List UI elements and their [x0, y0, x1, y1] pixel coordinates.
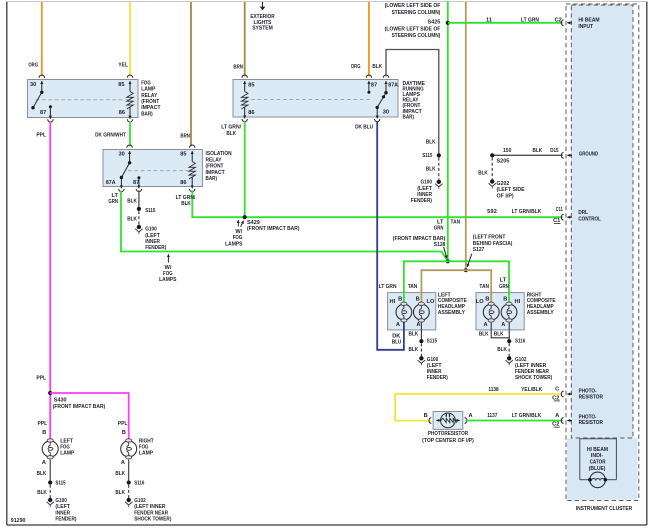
svg-text:BLK: BLK	[533, 148, 543, 154]
svg-text:LT GRN: LT GRN	[521, 17, 539, 23]
svg-text:LAMPS: LAMPS	[159, 277, 177, 283]
relay coil DRL relay	[242, 92, 248, 109]
wire LT GRN from isolation relay 87A down and right	[108, 191, 447, 262]
label LT GRN (right headlamp)	[499, 278, 509, 290]
svg-text:592: 592	[487, 209, 497, 215]
svg-text:GRN: GRN	[434, 226, 444, 232]
svg-text:D15: D15	[550, 148, 558, 154]
svg-text:G100: G100	[145, 227, 157, 233]
bulb LO left headlamp	[414, 296, 435, 328]
svg-text:87: 87	[371, 82, 377, 88]
label LT GRN / TAN (above S128)	[434, 219, 460, 231]
svg-text:(FRONT: (FRONT	[206, 164, 224, 170]
svg-text:87A: 87A	[106, 180, 116, 186]
left fog lamp	[38, 421, 75, 466]
svg-text:LT GRN/BLK: LT GRN/BLK	[512, 209, 542, 215]
svg-text:(TOP CENTER OF I/P): (TOP CENTER OF I/P)	[422, 438, 474, 444]
node S116 (right headlamp)	[507, 339, 525, 345]
isolation relay (front impact bar)	[103, 150, 232, 187]
svg-text:BLK: BLK	[426, 139, 436, 145]
svg-text:87: 87	[133, 180, 139, 186]
svg-text:B: B	[503, 296, 507, 302]
svg-text:RELAY: RELAY	[206, 157, 222, 163]
svg-text:(FRONT IMPACT BAR): (FRONT IMPACT BAR)	[53, 404, 106, 410]
svg-text:86: 86	[119, 110, 125, 116]
node S115 (right)	[422, 153, 441, 159]
svg-text:CATOR: CATOR	[590, 460, 606, 466]
svg-text:BAR): BAR)	[206, 176, 218, 182]
svg-text:86: 86	[248, 110, 254, 116]
svg-text:GRN: GRN	[108, 199, 118, 205]
wire LT GRN/BLK isolation relay 86 to DRL CONTROL (592)	[176, 191, 563, 218]
svg-text:S127: S127	[473, 247, 485, 253]
svg-text:INSTRUMENT CLUSTER: INSTRUMENT CLUSTER	[576, 506, 632, 512]
pin C11/C1 connector at cluster DRL CONTROL	[553, 210, 601, 224]
ground G100 (left inner fender, fog lamp)	[47, 498, 77, 523]
node S115 (isolation relay)	[137, 207, 156, 214]
svg-text:S115: S115	[145, 208, 155, 214]
svg-text:87: 87	[40, 110, 46, 116]
bulb HI left headlamp	[390, 296, 412, 328]
wire PPL S430 to right fog lamp	[50, 393, 129, 439]
wire BLK S205 to G202 (dashed)	[478, 158, 492, 180]
svg-text:S116: S116	[515, 339, 525, 345]
pin 87 DRL relay	[366, 75, 377, 94]
svg-text:B: B	[122, 430, 126, 436]
svg-text:(LEFT: (LEFT	[145, 233, 160, 239]
svg-text:FENDER): FENDER)	[55, 517, 76, 523]
drawing number 91290	[11, 518, 26, 524]
wire ORG feed to fog lamp relay pin 30	[28, 2, 41, 76]
bulb hi beam indicator	[588, 472, 607, 488]
svg-text:CONTROL: CONTROL	[578, 217, 601, 223]
svg-text:A: A	[396, 322, 400, 328]
wire BLK S115 to G100 (dashed, fog lamp)	[37, 485, 50, 498]
ground G102 (left inner fender near shock tower)	[506, 356, 553, 381]
svg-text:87A: 87A	[388, 82, 398, 88]
svg-text:A: A	[42, 460, 46, 466]
wire LT GRN S128 to both headlamp HI bulbs	[404, 261, 509, 303]
pin 86 fog lamp relay	[119, 107, 133, 122]
svg-text:DK: DK	[392, 333, 401, 339]
svg-text:A: A	[555, 413, 559, 419]
instrument cluster (dashed outline, blue band)	[566, 4, 639, 512]
switch contact 30-87A isolation relay	[120, 161, 132, 179]
pin A/C2 connector at cluster PHOTO-RESISTOR (lower)	[552, 414, 603, 427]
relay coil fog lamp relay	[127, 92, 133, 109]
right fog lamp	[118, 421, 154, 466]
pin 30 isolation relay	[119, 145, 133, 162]
svg-text:(LOWER LEFT SIDE OF: (LOWER LEFT SIDE OF	[385, 26, 441, 32]
wire BRN feed to DRL relay pin 85	[233, 2, 244, 76]
annotation W/ FOG LAMPS (left)	[159, 254, 177, 283]
svg-text:W/: W/	[165, 265, 172, 271]
ground G100 (left inner fender, isolation relay)	[135, 225, 166, 251]
svg-text:91290: 91290	[11, 518, 26, 524]
wire DK GRN/WHT fog relay 86 to isolation relay 30	[95, 121, 130, 146]
wire BLK left headlamp LO to S115	[409, 323, 422, 340]
svg-text:FOG: FOG	[60, 445, 70, 451]
svg-text:HI: HI	[515, 299, 521, 305]
svg-text:BLK: BLK	[494, 332, 504, 338]
node S127 (left front behind fascia)	[464, 235, 513, 273]
svg-text:TAN: TAN	[408, 284, 418, 290]
svg-text:FENDER): FENDER)	[145, 245, 166, 251]
svg-text:INNER: INNER	[417, 192, 432, 198]
svg-text:BLK: BLK	[426, 167, 436, 173]
svg-text:30: 30	[119, 152, 125, 158]
svg-text:TAN: TAN	[451, 219, 461, 225]
svg-text:S205: S205	[497, 158, 510, 164]
svg-text:BLK: BLK	[409, 347, 419, 353]
node EXTERIOR LIGHTS SYSTEM (off-page arrow)	[250, 2, 274, 32]
svg-text:BRN: BRN	[233, 65, 243, 71]
svg-text:PHOTORESISTOR: PHOTORESISTOR	[428, 431, 468, 437]
svg-text:BLK: BLK	[127, 198, 137, 204]
svg-text:BLK: BLK	[181, 201, 191, 207]
svg-text:ASSEMBLY: ASSEMBLY	[527, 310, 554, 316]
svg-text:LAMP: LAMP	[141, 87, 155, 93]
svg-text:(LEFT: (LEFT	[417, 186, 432, 192]
svg-text:B: B	[42, 430, 46, 436]
svg-text:LO: LO	[427, 299, 435, 305]
node S429 (front impact bar)	[241, 215, 300, 232]
wire BLK right fog lamp to S116	[115, 460, 128, 481]
svg-text:BLK: BLK	[497, 347, 507, 353]
svg-text:BLK: BLK	[37, 490, 47, 496]
svg-text:85: 85	[180, 152, 186, 158]
svg-text:W/: W/	[235, 229, 242, 235]
daytime running lamps relay (front impact bar)	[233, 80, 425, 121]
svg-text:LT GRN/: LT GRN/	[221, 125, 241, 131]
svg-text:1137: 1137	[487, 413, 497, 419]
wire PPL from fog relay 87 to S430 and left fog lamp	[36, 121, 50, 439]
pin 86 DRL relay	[242, 107, 254, 122]
node S116 (right fog lamp)	[127, 480, 145, 486]
pin D15 connector at cluster GROUND	[561, 151, 598, 158]
svg-text:S116: S116	[134, 481, 144, 487]
wire TAN S127 to both headlamp LO bulbs	[421, 270, 491, 303]
svg-text:DK GRN/WHT: DK GRN/WHT	[95, 133, 126, 139]
ground G202 (left side of I/P)	[489, 179, 525, 199]
wire BLK left fog lamp to S115	[37, 460, 51, 481]
wire BLK right headlamp LO and HI to S116	[479, 323, 509, 340]
wire 150 BLK D15 to cluster GROUND	[492, 148, 563, 155]
svg-text:C: C	[555, 387, 559, 393]
svg-text:BAR): BAR)	[403, 114, 415, 120]
svg-text:PPL: PPL	[36, 376, 46, 382]
svg-text:BLK: BLK	[372, 64, 382, 70]
svg-text:A: A	[484, 322, 488, 328]
ground G100 (left inner fender) right	[411, 180, 443, 204]
wire BRN feed to isolation relay pin 85	[180, 2, 191, 146]
pin C2 connector at instrument cluster HI BEAM INPUT	[561, 17, 600, 30]
svg-text:85: 85	[118, 82, 124, 88]
svg-text:HI BEAM: HI BEAM	[578, 17, 599, 23]
svg-text:S115: S115	[422, 153, 432, 159]
svg-text:LT: LT	[437, 219, 444, 225]
svg-text:IMPACT: IMPACT	[141, 105, 161, 111]
svg-text:S430: S430	[54, 398, 67, 404]
svg-text:G102: G102	[134, 498, 146, 504]
svg-text:BLK: BLK	[226, 131, 236, 137]
svg-text:FOG: FOG	[139, 445, 149, 451]
wire BLK S115 to G100 (dashed, headlamp)	[409, 343, 422, 356]
svg-text:INNER: INNER	[55, 510, 70, 516]
svg-text:LAMP: LAMP	[60, 451, 74, 457]
svg-text:(LOWER LEFT SIDE OF: (LOWER LEFT SIDE OF	[385, 3, 441, 9]
label LT GRN (left headlamp)	[379, 284, 397, 290]
bulb HI right headlamp	[501, 296, 520, 328]
wire ORG feed to DRL relay pin 87	[351, 2, 369, 76]
svg-text:RELAY: RELAY	[141, 93, 157, 99]
svg-text:B: B	[485, 296, 489, 302]
wire TAN feed to splice S127	[465, 2, 467, 268]
photoresistor (top center of I/P)	[422, 412, 474, 445]
svg-text:YEL/BLK: YEL/BLK	[521, 387, 543, 393]
svg-text:SHOCK TOWER): SHOCK TOWER)	[515, 375, 552, 381]
svg-text:FENDER NEAR: FENDER NEAR	[134, 510, 168, 516]
wire LT GRN from steering column through S425 down to S128	[447, 1, 449, 259]
ground G102 (left inner fender near shock tower, fog lamp)	[125, 498, 171, 523]
svg-text:LAMP: LAMP	[139, 451, 153, 457]
svg-text:S115: S115	[55, 481, 65, 487]
svg-text:A: A	[501, 322, 505, 328]
svg-text:G202: G202	[497, 181, 510, 187]
wire BLK S116 to G102 (dashed, headlamp)	[497, 343, 509, 356]
wire 1138 YEL/BLK to cluster PHOTO-RESISTOR	[395, 387, 563, 421]
switch contact 87A-30 DRL relay	[376, 93, 387, 109]
svg-text:B: B	[424, 413, 428, 419]
svg-text:BLK: BLK	[479, 332, 489, 338]
svg-text:FOG: FOG	[163, 271, 173, 277]
pin 87 isolation relay	[133, 176, 142, 191]
svg-text:SYSTEM: SYSTEM	[252, 26, 273, 32]
wire 1137 LT GRN/BLK to cluster PHOTO-RESISTOR	[466, 413, 563, 421]
svg-text:BLK: BLK	[409, 332, 419, 338]
ground G100 (left inner fender, headlamp)	[418, 356, 448, 381]
left composite headlamp assembly	[388, 292, 467, 330]
svg-text:BLU: BLU	[392, 340, 402, 346]
pin 86 isolation relay	[180, 177, 195, 192]
svg-text:DRL: DRL	[578, 210, 588, 216]
svg-text:S425: S425	[428, 20, 441, 26]
node S425 (lower left side of steering column)	[385, 3, 450, 39]
svg-text:LT: LT	[500, 278, 507, 284]
svg-text:BRN: BRN	[180, 134, 190, 140]
svg-text:B: B	[416, 296, 420, 302]
wire BLK S115 to G100 (dashed)	[426, 158, 439, 180]
svg-text:S115: S115	[427, 339, 437, 345]
svg-text:LAMPS: LAMPS	[225, 241, 243, 247]
right composite headlamp assembly	[476, 292, 556, 330]
svg-text:ORG: ORG	[28, 63, 38, 69]
svg-text:GRN: GRN	[499, 284, 509, 290]
node S205	[490, 153, 509, 164]
pin 30 fog lamp relay	[30, 75, 45, 92]
svg-text:LEFT: LEFT	[60, 439, 73, 445]
svg-text:SHOCK TOWER): SHOCK TOWER)	[134, 517, 171, 523]
svg-text:YEL: YEL	[118, 63, 128, 69]
svg-text:INDI-: INDI-	[591, 453, 603, 459]
svg-text:150: 150	[503, 148, 511, 154]
svg-text:11: 11	[486, 17, 492, 23]
bulb LO right headlamp	[476, 296, 499, 328]
switch contact 30-87 fog lamp relay	[31, 91, 43, 110]
svg-text:(LEFT FRONT: (LEFT FRONT	[473, 235, 506, 241]
svg-text:ISOLATION: ISOLATION	[206, 151, 232, 157]
svg-text:(LEFT INNER: (LEFT INNER	[134, 504, 165, 510]
svg-text:A: A	[121, 460, 125, 466]
hi beam indicator (blue) in instrument cluster	[580, 439, 617, 480]
pin 87 fog lamp relay	[40, 105, 53, 122]
pin 85 isolation relay	[180, 145, 195, 162]
svg-text:(BLUE): (BLUE)	[589, 466, 606, 472]
svg-text:RIGHT: RIGHT	[139, 439, 154, 445]
svg-text:BLK: BLK	[115, 471, 125, 477]
wire BLK from DRL relay 87A to S115	[372, 50, 438, 154]
svg-text:LO: LO	[476, 299, 484, 305]
svg-text:ORG: ORG	[351, 64, 361, 70]
svg-text:FOG: FOG	[141, 80, 151, 86]
svg-text:30: 30	[383, 110, 389, 116]
svg-text:INNER: INNER	[145, 239, 160, 245]
svg-text:BLK: BLK	[37, 471, 47, 477]
pin 87A isolation relay	[106, 178, 124, 192]
svg-text:IMPACT: IMPACT	[206, 170, 226, 176]
svg-text:BEHIND FASCIA): BEHIND FASCIA)	[473, 241, 513, 247]
svg-text:BLK: BLK	[115, 490, 125, 496]
node S128 (front impact bar)	[393, 236, 450, 263]
pin 85 fog lamp relay	[118, 75, 132, 91]
node S115 (left fog lamp)	[48, 480, 65, 486]
svg-text:B: B	[398, 296, 402, 302]
svg-text:RESISTOR: RESISTOR	[579, 420, 603, 426]
svg-text:(FRONT: (FRONT	[141, 99, 159, 105]
svg-text:G100: G100	[55, 498, 67, 504]
svg-text:86: 86	[180, 180, 186, 186]
svg-text:C2: C2	[554, 17, 561, 23]
svg-text:TAN: TAN	[479, 284, 489, 290]
wire 11 LT GRN C2 to HI BEAM INPUT	[448, 17, 563, 23]
node S430 (front impact bar)	[36, 376, 105, 411]
svg-text:BLK: BLK	[127, 217, 137, 223]
wire LT GRN/BLK DRL relay 86 down to S429	[221, 121, 244, 216]
svg-text:STEERING COLUMN): STEERING COLUMN)	[392, 10, 441, 16]
pin 85 DRL relay	[242, 75, 254, 92]
svg-text:C11: C11	[556, 207, 563, 213]
label TAN (left headlamp)	[408, 284, 418, 290]
node S115 (left headlamp)	[419, 339, 437, 345]
svg-text:BAR): BAR)	[141, 111, 153, 117]
svg-text:FOG: FOG	[233, 235, 243, 241]
svg-text:PPL: PPL	[36, 133, 46, 139]
wire DK BLU DRL relay 30 to left headlamp HI	[355, 121, 404, 350]
wire BLK S116 to G102 (dashed, fog lamp)	[115, 485, 128, 498]
svg-text:85: 85	[248, 83, 254, 89]
svg-text:FENDER): FENDER)	[411, 198, 432, 204]
svg-text:LT GRN/BLK: LT GRN/BLK	[512, 413, 542, 419]
svg-text:A: A	[469, 413, 473, 419]
annotation W/ FOG LAMPS (at S429)	[225, 220, 243, 247]
fog lamp relay (front impact bar)	[28, 80, 162, 118]
svg-text:ASSEMBLY: ASSEMBLY	[438, 310, 465, 316]
wire BLK from isolation relay 87 to S115	[127, 191, 139, 207]
svg-text:1138: 1138	[488, 387, 498, 393]
label TAN (right headlamp)	[479, 284, 489, 290]
svg-text:GROUND: GROUND	[579, 151, 598, 157]
pin C/C2 connector at cluster PHOTO-RESISTOR (upper)	[552, 389, 603, 402]
svg-text:FENDER): FENDER)	[427, 375, 448, 381]
svg-text:(LEFT: (LEFT	[55, 504, 70, 510]
svg-text:LT: LT	[112, 193, 119, 199]
svg-text:STEERING COLUMN): STEERING COLUMN)	[392, 33, 441, 39]
svg-text:RESISTOR: RESISTOR	[579, 394, 603, 400]
svg-text:(FRONT IMPACT BAR): (FRONT IMPACT BAR)	[247, 226, 300, 232]
wire BLK S115 to G100 (dashed, isolation relay)	[127, 211, 139, 225]
svg-text:(LEFT SIDE: (LEFT SIDE	[497, 187, 525, 193]
svg-text:INPUT: INPUT	[578, 24, 593, 30]
svg-text:LT GRN: LT GRN	[379, 284, 397, 290]
svg-text:A: A	[416, 322, 420, 328]
svg-text:30: 30	[30, 82, 36, 88]
pin 87A DRL relay	[383, 75, 398, 94]
svg-text:BLK: BLK	[478, 170, 488, 176]
svg-text:G100: G100	[421, 180, 433, 186]
svg-text:OF I/P): OF I/P)	[497, 193, 514, 199]
svg-text:PPL: PPL	[118, 421, 128, 427]
wire YEL feed to fog lamp relay pin 85	[118, 2, 130, 76]
svg-text:DK BLU: DK BLU	[355, 125, 373, 131]
svg-text:PPL: PPL	[38, 421, 48, 427]
pin 30 DRL relay	[375, 107, 390, 121]
svg-text:HI: HI	[390, 299, 396, 305]
relay coil isolation relay	[189, 162, 195, 179]
